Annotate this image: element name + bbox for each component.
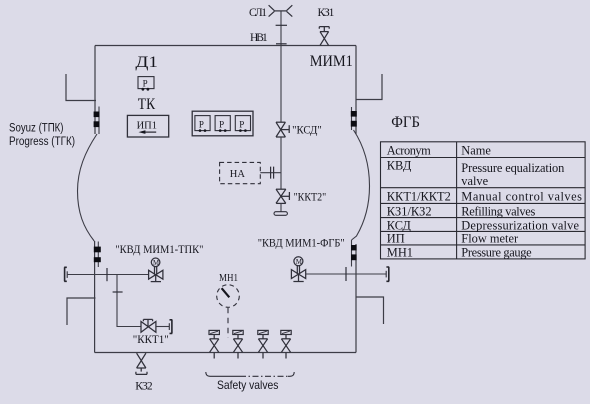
connector: right fill line flange bbox=[385, 271, 387, 278]
svg-text:МН1: МН1 bbox=[219, 272, 238, 284]
wire: NA to pipe bbox=[260, 172, 281, 174]
wire: module left wall lower bbox=[94, 241, 96, 353]
svg-text:Flow meter: Flow meter bbox=[461, 232, 519, 246]
bulkhead feedthrough blocks bottom-right bbox=[351, 245, 357, 250]
pressure gauge MN1 bbox=[217, 285, 240, 308]
svg-text:М: М bbox=[296, 259, 302, 266]
safety valve SV1 bbox=[209, 330, 219, 358]
svg-text:М: М bbox=[153, 260, 159, 267]
svg-text:К32: К32 bbox=[135, 380, 153, 392]
svg-text:КЗ1/КЗ2: КЗ1/КЗ2 bbox=[387, 204, 432, 218]
svg-text:Pressure equalization: Pressure equalization bbox=[461, 161, 564, 175]
bulkhead feedthrough blocks top-right bbox=[351, 111, 357, 117]
flange tick on right fill line bbox=[345, 267, 347, 281]
valve KVD MIM1-FGB (motorized) bbox=[291, 257, 305, 282]
wire: module right wall upper bbox=[355, 46, 357, 135]
safety valve SV3 bbox=[258, 330, 268, 358]
valve K32 (refilling) bbox=[136, 353, 147, 374]
brace under safety valves bbox=[206, 372, 240, 376]
sensor block: three P sensors bbox=[192, 111, 253, 136]
valve KSD (depressurization) bbox=[276, 122, 289, 137]
connector SL1 (fill/drain coupling) bbox=[269, 5, 293, 16]
svg-text:Д1: Д1 bbox=[135, 54, 158, 71]
flange tick on branch bbox=[113, 291, 123, 293]
wire: pipe KSD to KKT2 bbox=[280, 137, 282, 189]
safety valve SV4 bbox=[281, 330, 291, 358]
wire: module right wall lower bbox=[355, 244, 357, 353]
bulkhead feedthrough blocks bottom-left bbox=[94, 247, 101, 253]
svg-text:Soyuz (ТПК): Soyuz (ТПК) bbox=[9, 123, 64, 135]
wire: hull segment top-right bbox=[351, 107, 353, 130]
svg-text:КСД: КСД bbox=[387, 218, 412, 232]
valve KKT2 (manual control) bbox=[276, 189, 289, 203]
accumulator NA dashed box bbox=[220, 162, 261, 183]
wire: hull segment bottom-right bbox=[351, 240, 353, 267]
svg-text:Acronym: Acronym bbox=[387, 143, 431, 157]
svg-text:Р: Р bbox=[239, 119, 244, 129]
svg-text:"КВД МИМ1-ТПК": "КВД МИМ1-ТПК" bbox=[115, 244, 203, 256]
wire: KKT2 to cap bbox=[280, 203, 282, 211]
svg-text:СЛ1: СЛ1 bbox=[249, 7, 267, 19]
svg-text:Р: Р bbox=[219, 119, 224, 129]
hull curve right bbox=[352, 130, 370, 240]
svg-text:ИП1: ИП1 bbox=[137, 121, 157, 132]
flange NV1 at module wall bbox=[276, 43, 287, 45]
svg-text:Safety valves: Safety valves bbox=[217, 378, 278, 392]
wire: right fill line bbox=[306, 273, 386, 275]
svg-text:ФГБ: ФГБ bbox=[391, 114, 420, 131]
wire: branch down to KKT1 bbox=[117, 275, 141, 327]
svg-text:Name: Name bbox=[461, 143, 491, 157]
flange pair on NA line bbox=[271, 167, 274, 179]
svg-text:Р: Р bbox=[143, 79, 148, 89]
connector: left fill line flange bbox=[64, 267, 67, 281]
wire: left fill line bbox=[67, 274, 148, 276]
svg-text:"ККТ1": "ККТ1" bbox=[133, 334, 169, 346]
svg-text:ТК: ТК bbox=[138, 96, 156, 113]
dashed stem below MN1 bbox=[227, 308, 229, 338]
wire: module top wall bbox=[95, 45, 356, 47]
port bracket top-right bbox=[356, 74, 382, 100]
valve KZ1 (manual, T-handle) bbox=[319, 27, 329, 46]
svg-text:valve: valve bbox=[461, 174, 488, 188]
svg-text:НВ1: НВ1 bbox=[250, 32, 268, 44]
svg-text:ККТ1/ККТ2: ККТ1/ККТ2 bbox=[387, 190, 451, 204]
svg-text:ИП: ИП bbox=[387, 232, 405, 246]
svg-text:Р: Р bbox=[199, 119, 204, 129]
svg-text:"ККТ2": "ККТ2" bbox=[294, 192, 327, 204]
svg-text:"КСД": "КСД" bbox=[292, 124, 322, 136]
pipe end cap bbox=[274, 212, 287, 216]
wire: module bottom wall bbox=[95, 352, 356, 354]
pressure sensor P box D1 bbox=[138, 77, 154, 91]
svg-text:Refilling valves: Refilling valves bbox=[461, 204, 535, 218]
valve KKT1 (manual, T-handle) bbox=[141, 319, 156, 332]
legend table text bbox=[387, 143, 582, 259]
svg-text:КВД: КВД bbox=[387, 159, 412, 173]
svg-text:"КВД МИМ1-ФГБ": "КВД МИМ1-ФГБ" bbox=[258, 238, 345, 250]
bulkhead feedthrough blocks top-left bbox=[94, 112, 100, 118]
legend table frame bbox=[381, 142, 586, 259]
flange tick on left fill line bbox=[106, 268, 108, 281]
hull curve left bbox=[78, 134, 98, 241]
wire: hull segment bottom-left bbox=[97, 242, 99, 268]
svg-text:Progress (ТГК): Progress (ТГК) bbox=[9, 136, 75, 148]
port bracket bottom-right bbox=[356, 297, 384, 324]
svg-text:МН1: МН1 bbox=[387, 245, 413, 259]
svg-text:Depressurization valve: Depressurization valve bbox=[461, 218, 579, 232]
wire: KKT1 to connector bbox=[156, 326, 169, 328]
svg-text:КЗ1: КЗ1 bbox=[318, 7, 335, 19]
port bracket bottom-left bbox=[67, 298, 96, 325]
safety valve SV2 bbox=[233, 330, 243, 358]
wire: hull segment top-left bbox=[98, 107, 100, 135]
svg-text:МИМ1: МИМ1 bbox=[310, 53, 353, 70]
svg-text:Pressure gauge: Pressure gauge bbox=[461, 245, 532, 259]
wire: SL1 vertical pipe bbox=[280, 11, 282, 122]
wire: module left wall upper bbox=[94, 46, 96, 135]
port bracket top-left bbox=[66, 74, 96, 101]
svg-text:НА: НА bbox=[230, 169, 246, 180]
valve KVD MIM1-TPK (motorized) bbox=[149, 258, 163, 282]
connector at KKT1 bbox=[168, 323, 170, 330]
flow meter IP1 box bbox=[127, 115, 168, 137]
svg-text:Manual control valves: Manual control valves bbox=[461, 190, 582, 204]
flange on SL1 line bbox=[276, 24, 287, 26]
